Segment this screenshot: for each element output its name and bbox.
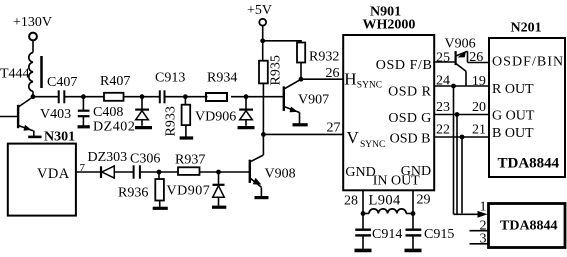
- diode DZ303: [88, 150, 134, 178]
- wire: [200, 171, 250, 173]
- ground: [153, 207, 168, 210]
- IC N201 TDA8844: [489, 21, 565, 178]
- ground: [255, 196, 269, 199]
- IC N901 WH2000: [343, 5, 434, 191]
- svg-text:TDA8844: TDA8844: [498, 156, 560, 172]
- node: [261, 132, 266, 137]
- wire pin 24 to 19: [434, 74, 489, 89]
- capacitor C914: [355, 214, 402, 249]
- svg-text:VD907: VD907: [167, 184, 211, 199]
- capacitor C407: [47, 75, 77, 103]
- wire pin 26 of N201: [468, 50, 490, 65]
- wire: [300, 63, 302, 80]
- svg-text:T444: T444: [0, 67, 30, 82]
- IC N301 VDA: [8, 130, 76, 216]
- ground: [212, 206, 226, 209]
- wire pin 2: [470, 218, 489, 233]
- svg-text:L904: L904: [369, 193, 402, 209]
- svg-text:IN OUT: IN OUT: [373, 174, 420, 189]
- svg-text:C914: C914: [372, 227, 402, 242]
- wire: [32, 40, 34, 52]
- svg-text:N201: N201: [511, 21, 542, 36]
- svg-text:19: 19: [472, 74, 486, 89]
- node: [31, 94, 36, 99]
- ground: [238, 126, 255, 129]
- bus wire G: [456, 115, 458, 215]
- ground: [405, 249, 422, 253]
- svg-text:+5V: +5V: [247, 3, 272, 18]
- wire: [263, 41, 301, 43]
- svg-text:G OUT: G OUT: [492, 109, 535, 124]
- capacitor C913: [155, 71, 185, 104]
- svg-text:WH2000: WH2000: [363, 18, 416, 33]
- ground: [135, 126, 152, 129]
- svg-text:V: V: [347, 128, 360, 147]
- node: [361, 211, 366, 216]
- svg-text:OSD F/B: OSD F/B: [376, 58, 433, 73]
- wire pin 22 to 21: [434, 123, 489, 138]
- svg-text:OSD G: OSD G: [388, 111, 431, 126]
- zener diode DZ402: [93, 97, 149, 135]
- svg-text:26: 26: [326, 66, 340, 81]
- transistor V908: [250, 134, 296, 196]
- svg-text:C306: C306: [130, 152, 160, 167]
- IC TDA8844 bottom: [489, 204, 566, 248]
- svg-text:H: H: [344, 70, 356, 89]
- svg-text:C913: C913: [155, 71, 185, 86]
- node: [460, 135, 465, 140]
- arrow into pin 1: [478, 211, 488, 218]
- resistor R936: [118, 172, 164, 207]
- node: [411, 211, 416, 216]
- svg-text:R407: R407: [100, 74, 130, 89]
- svg-text:22: 22: [436, 123, 450, 138]
- node: [260, 38, 265, 43]
- svg-text:29: 29: [417, 193, 431, 208]
- ground: [180, 136, 194, 139]
- node: [451, 84, 456, 89]
- bus wire R: [453, 86, 455, 214]
- wire: [231, 96, 283, 98]
- wire pin 3: [470, 232, 489, 247]
- wire pin 28: [344, 190, 363, 213]
- wire: [33, 96, 58, 98]
- wire pin 29: [413, 190, 431, 213]
- ground: [293, 123, 308, 126]
- node: [299, 77, 304, 82]
- wire: [165, 96, 208, 98]
- wire to pin 1: [454, 213, 479, 215]
- bus wire B: [461, 137, 463, 213]
- diode VD907: [167, 172, 225, 206]
- transistor V906: [445, 37, 476, 87]
- wire pin 27: [263, 121, 343, 136]
- svg-text:C408: C408: [93, 105, 123, 120]
- svg-text:R934: R934: [207, 71, 237, 86]
- svg-text:V907: V907: [298, 93, 329, 108]
- wire pin 7: [76, 162, 101, 174]
- node: [157, 170, 162, 175]
- svg-text:OSDF/BIN: OSDF/BIN: [492, 55, 564, 70]
- ground: [28, 131, 41, 137]
- wire pin 26: [301, 66, 343, 81]
- capacitor C408: [78, 97, 124, 126]
- node: [455, 112, 460, 117]
- inductor T444: [0, 53, 42, 92]
- svg-text:20: 20: [472, 100, 486, 115]
- svg-text:DZ303: DZ303: [88, 150, 128, 165]
- transistor V403: [0, 97, 71, 131]
- node: [244, 94, 249, 99]
- node: [140, 94, 145, 99]
- +130V supply terminal: [13, 15, 52, 40]
- svg-text:7: 7: [80, 162, 86, 174]
- svg-text:+130V: +130V: [13, 15, 52, 30]
- resistor R407: [100, 74, 130, 101]
- resistor R937: [175, 153, 205, 175]
- svg-text:R OUT: R OUT: [492, 82, 534, 97]
- svg-text:V908: V908: [265, 167, 296, 182]
- wire: [64, 96, 104, 98]
- wire: [124, 96, 160, 98]
- diode VD906: [195, 97, 253, 126]
- svg-text:VD906: VD906: [195, 110, 236, 125]
- svg-text:R936: R936: [118, 186, 148, 201]
- resistor R933: [164, 97, 191, 137]
- svg-text:24: 24: [436, 74, 450, 89]
- capacitor C306: [130, 152, 160, 179]
- svg-text:21: 21: [472, 123, 486, 138]
- svg-text:R935: R935: [269, 55, 284, 85]
- svg-text:27: 27: [327, 121, 341, 136]
- inductor L904: [363, 193, 413, 214]
- svg-text:R932: R932: [309, 50, 339, 65]
- wire: [262, 26, 264, 41]
- svg-text:C915: C915: [424, 227, 454, 242]
- +5V supply terminal: [247, 3, 272, 26]
- resistor R935: [259, 41, 284, 135]
- svg-text:DZ402: DZ402: [93, 120, 135, 135]
- svg-text:VDA: VDA: [37, 166, 70, 182]
- svg-text:SYNC: SYNC: [357, 80, 382, 90]
- svg-text:R933: R933: [164, 106, 179, 136]
- svg-text:N301: N301: [44, 130, 75, 145]
- ground: [355, 249, 372, 253]
- wire pin 25: [434, 50, 455, 65]
- svg-text:SYNC: SYNC: [360, 140, 385, 150]
- svg-text:C407: C407: [47, 75, 77, 90]
- svg-text:GND: GND: [345, 165, 375, 180]
- svg-text:26: 26: [469, 50, 483, 65]
- svg-text:R937: R937: [175, 153, 205, 168]
- svg-text:1: 1: [480, 200, 487, 215]
- resistor R934: [206, 71, 237, 102]
- ground: [78, 125, 90, 128]
- svg-text:OSD R: OSD R: [388, 84, 432, 99]
- svg-text:23: 23: [436, 100, 450, 115]
- svg-text:B OUT: B OUT: [492, 126, 534, 141]
- node: [81, 94, 86, 99]
- svg-text:TDA8844: TDA8844: [500, 219, 558, 234]
- wire pin 23 to 20: [434, 100, 489, 115]
- svg-text:28: 28: [344, 194, 358, 209]
- wire: [32, 91, 34, 96]
- svg-text:25: 25: [436, 50, 450, 65]
- svg-text:OSD B: OSD B: [390, 132, 431, 147]
- transistor V907: [284, 79, 329, 123]
- svg-text:V403: V403: [40, 107, 71, 122]
- wire: [140, 171, 178, 173]
- node: [216, 170, 221, 175]
- node: [183, 94, 188, 99]
- svg-text:3: 3: [480, 232, 487, 247]
- capacitor C915: [406, 214, 455, 249]
- resistor R932: [297, 43, 339, 65]
